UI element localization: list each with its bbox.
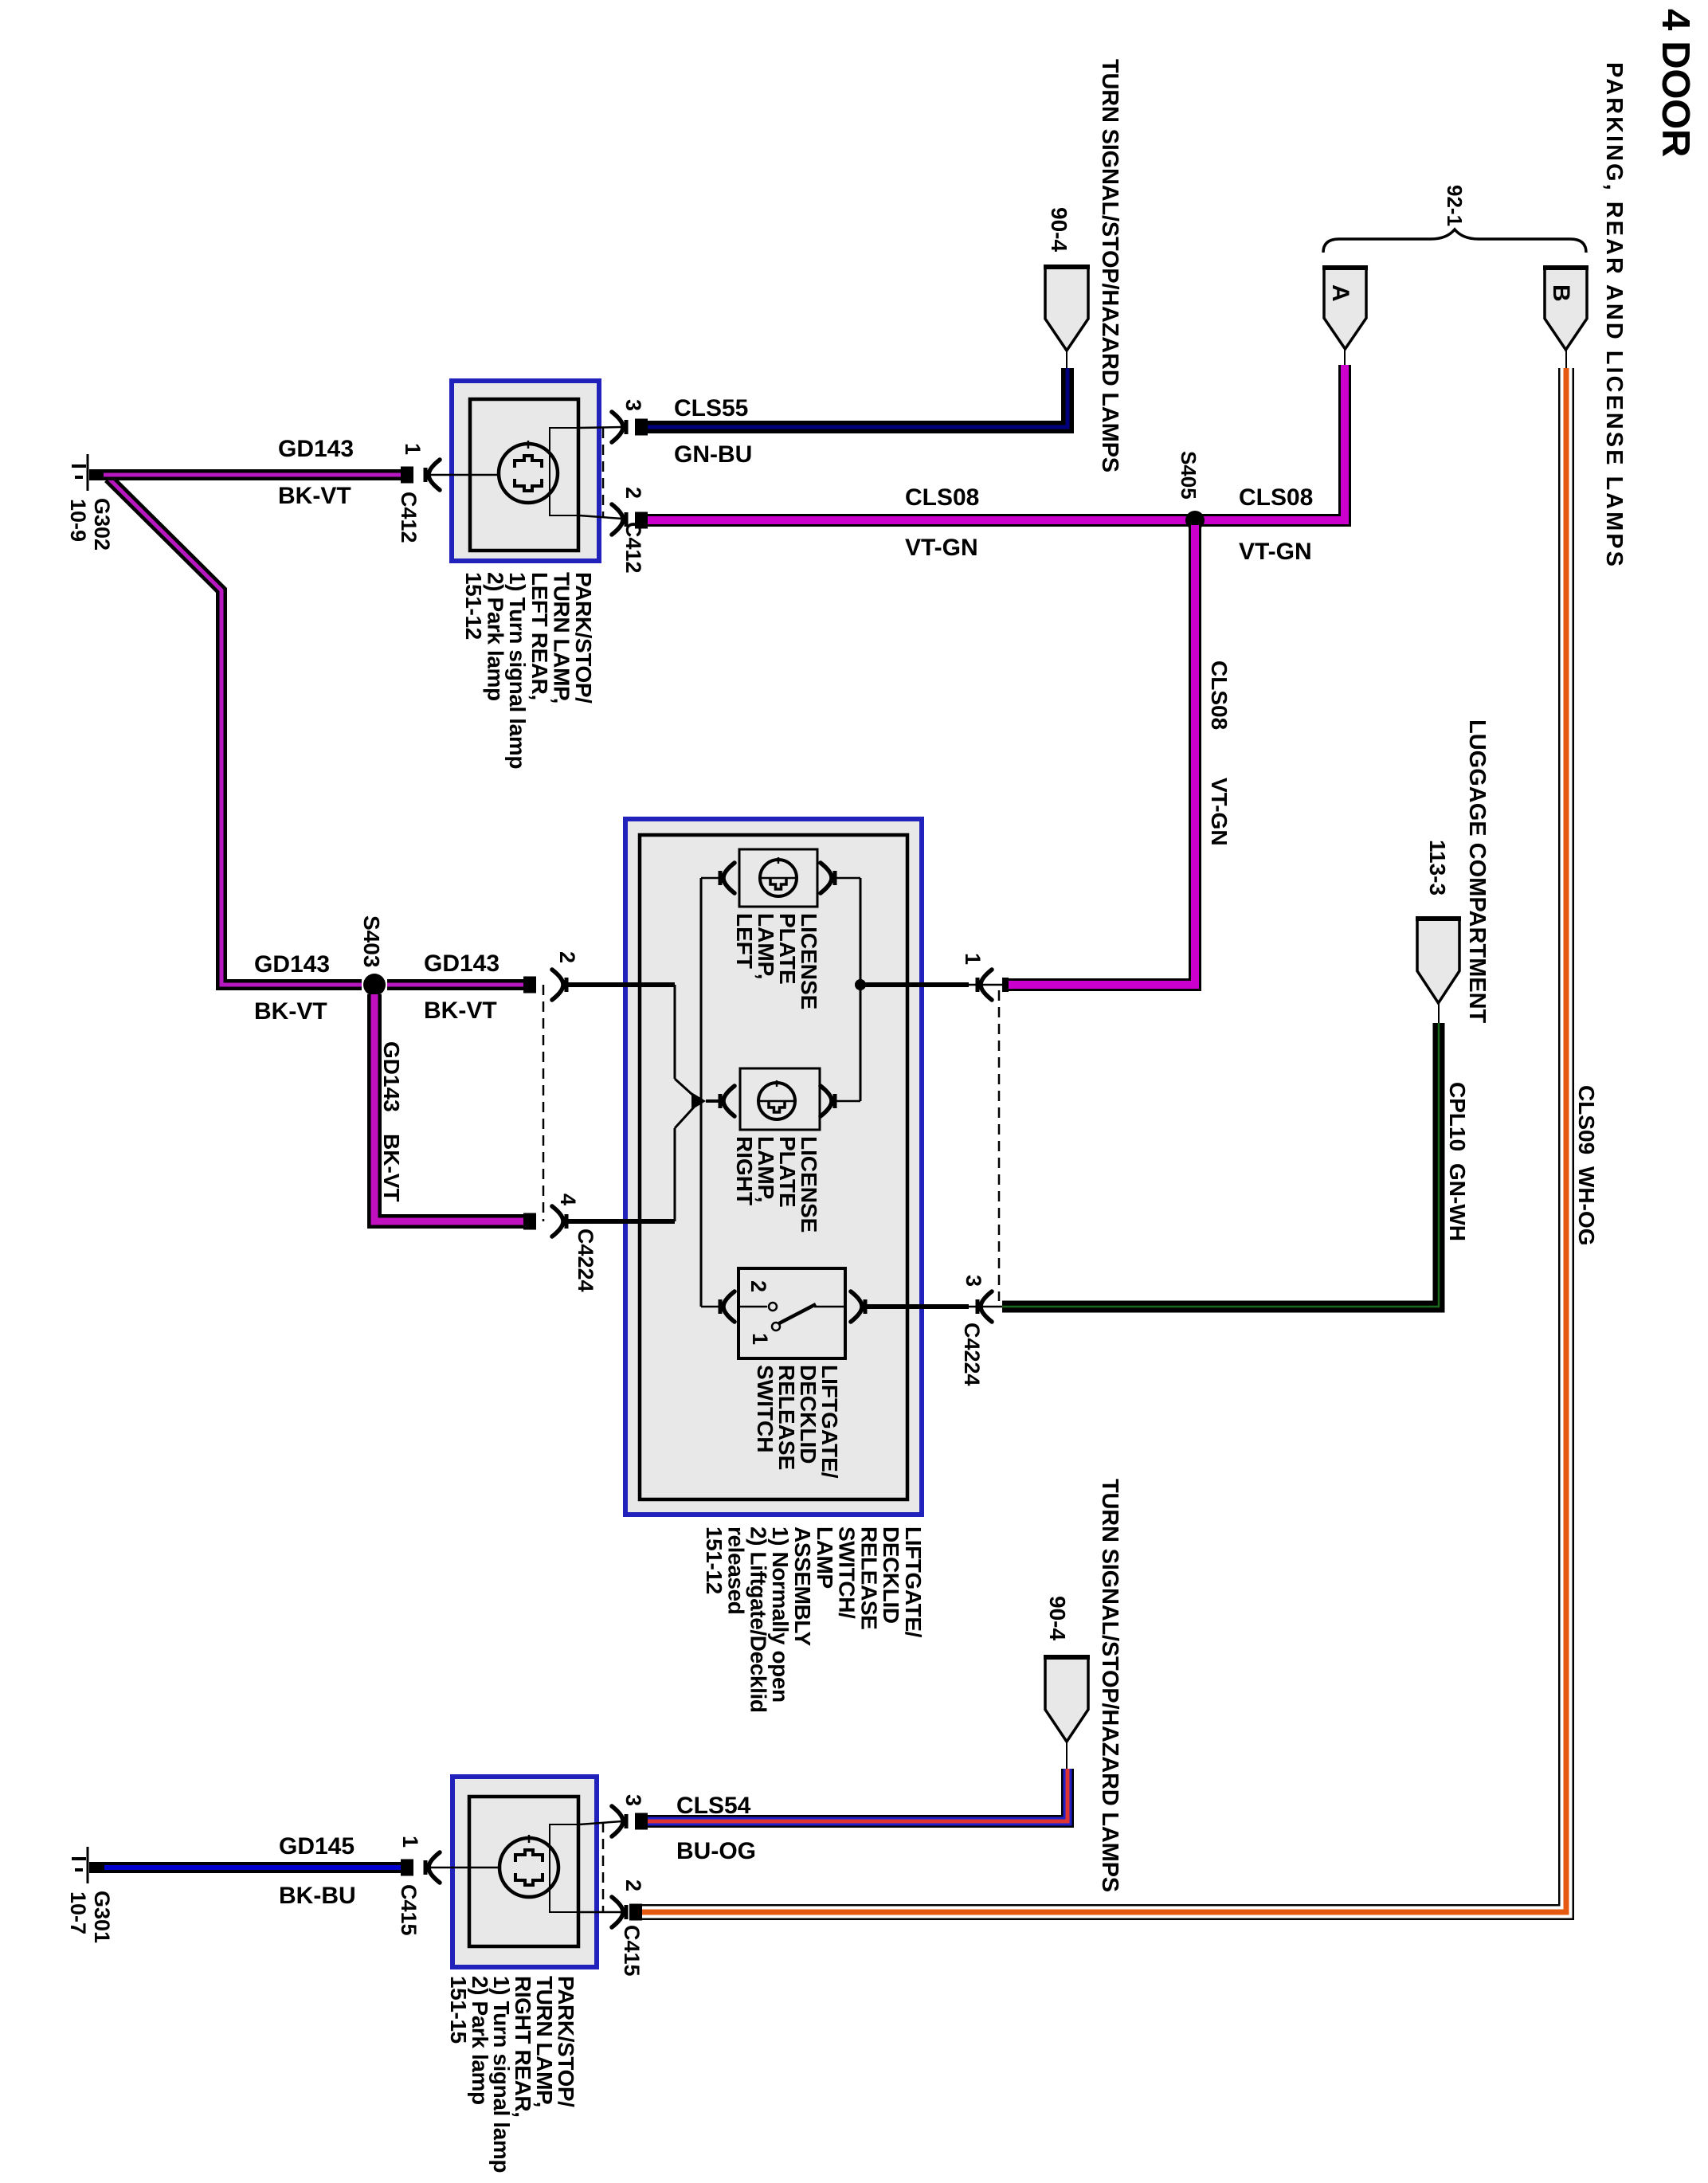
C412 internal lead pin 2 xyxy=(579,515,622,519)
svg-text:2: 2 xyxy=(621,487,645,499)
connector flag 90-4 top xyxy=(1045,267,1088,351)
wire end cap GD145 at C415 pin 1 xyxy=(401,1860,413,1876)
svg-text:CLS09: CLS09 xyxy=(1574,1085,1599,1154)
svg-text:1: 1 xyxy=(961,953,985,965)
C415 inner housing xyxy=(469,1797,578,1946)
svg-text:CLS08: CLS08 xyxy=(905,484,979,511)
svg-text:1) Normally open: 1) Normally open xyxy=(768,1527,793,1703)
switch contact 1 xyxy=(772,1323,780,1331)
wire end cap GD143 at C4224 pin 4 xyxy=(523,1213,536,1230)
connector flag 90-4 bottom xyxy=(1045,1657,1088,1742)
svg-text:G301: G301 xyxy=(90,1891,114,1943)
internal junction dot pin1 bus xyxy=(855,979,866,990)
svg-text:BK-VT: BK-VT xyxy=(424,997,497,1024)
internal pin 3 stub xyxy=(864,1304,969,1309)
wire end cap GD143 at C4224 pin 2 xyxy=(523,977,536,994)
svg-text:VT-GN: VT-GN xyxy=(905,535,978,561)
svg-text:2: 2 xyxy=(621,1879,645,1891)
switch left arrow xyxy=(723,1291,735,1322)
svg-text:113-3: 113-3 xyxy=(1425,840,1450,896)
connector flag A xyxy=(1324,268,1366,349)
brace for 92-1 xyxy=(1323,229,1586,253)
lead from flag A xyxy=(1344,349,1346,365)
svg-text:LAMP: LAMP xyxy=(813,1527,837,1589)
C412 pin 2 arrow xyxy=(612,504,623,535)
svg-text:DECKLID: DECKLID xyxy=(879,1527,903,1624)
svg-text:3: 3 xyxy=(621,399,645,411)
svg-text:S403: S403 xyxy=(359,915,384,967)
wire GD145 BK-BU xyxy=(89,1862,413,1873)
bulb license plate lamp right xyxy=(758,1083,795,1119)
lead left of left bulb xyxy=(701,877,722,880)
wire CLS08 VT-GN to C4224 pin 1 xyxy=(1002,525,1195,985)
connector C415 box xyxy=(452,1777,597,1967)
svg-text:BK-VT: BK-VT xyxy=(379,1134,404,1202)
wire end cap CLS54 at C415 pin 3 xyxy=(635,1813,648,1830)
svg-text:GD145: GD145 xyxy=(279,1833,355,1860)
svg-text:C4224: C4224 xyxy=(960,1323,984,1386)
wire GD143 S403 to C4224 pin 2 xyxy=(387,979,536,990)
ground G302 xyxy=(87,454,89,491)
internal pin 2 stub xyxy=(566,982,675,987)
C4224 left pin arrows xyxy=(552,970,563,1000)
C415 pin 1 arrow xyxy=(429,1852,440,1883)
switch contact 2 xyxy=(769,1303,777,1311)
connector flag 113-3 xyxy=(1417,919,1459,1003)
wire end cap GD143 at C412 pin 1 xyxy=(401,467,413,484)
svg-text:151-12: 151-12 xyxy=(461,572,486,640)
left bulb right arrow xyxy=(821,863,832,893)
svg-text:1: 1 xyxy=(398,1836,422,1848)
connector C412 box xyxy=(452,381,599,561)
svg-text:TURN SIGNAL/STOP/HAZARD LAMPS: TURN SIGNAL/STOP/HAZARD LAMPS xyxy=(1097,59,1122,472)
svg-text:CLS08: CLS08 xyxy=(1207,660,1232,730)
connector flag B xyxy=(1545,268,1587,350)
wire CLS54 BU-OG xyxy=(635,1769,1067,1821)
svg-text:3: 3 xyxy=(621,1794,645,1806)
C415 internal lead pin 2 xyxy=(579,1911,622,1914)
svg-text:BK-VT: BK-VT xyxy=(278,483,351,509)
svg-text:LUGGAGE COMPARTMENT: LUGGAGE COMPARTMENT xyxy=(1464,719,1490,1024)
svg-text:10-9: 10-9 xyxy=(66,499,90,542)
license plate lamp left sub-box xyxy=(739,849,817,907)
C412 socket outline xyxy=(550,428,579,515)
svg-text:PARK/STOP/: PARK/STOP/ xyxy=(571,572,596,703)
right bulb left arrow xyxy=(723,1086,735,1116)
svg-text:151-12: 151-12 xyxy=(702,1527,727,1594)
bulb park/stop/turn left rear xyxy=(499,444,558,503)
svg-text:2) Liftgate/Decklid: 2) Liftgate/Decklid xyxy=(746,1527,770,1713)
svg-text:CLS55: CLS55 xyxy=(674,395,748,421)
svg-text:151-15: 151-15 xyxy=(446,1976,471,2044)
wire GD143 S403 down to C4224 pin 4 xyxy=(374,994,536,1221)
C412 internal lead pin 1 xyxy=(430,474,499,476)
C412 pin 3 arrow xyxy=(612,412,623,442)
internal bus line left xyxy=(700,878,703,1307)
C412 dashed connector line xyxy=(602,428,605,518)
right bulb right arrow xyxy=(821,1086,832,1116)
svg-text:3: 3 xyxy=(962,1275,985,1287)
C415 internal lead pin 3 xyxy=(579,1821,622,1824)
wire CLS09 WH-OG xyxy=(629,368,1566,1912)
svg-text:WH-OG: WH-OG xyxy=(1574,1166,1599,1246)
wire end cap CLS55 at pin 3 xyxy=(635,419,648,436)
liftgate/decklid release switch/lamp assembly box xyxy=(625,819,922,1515)
svg-text:92-1: 92-1 xyxy=(1443,185,1467,226)
C415 pin 3 arrow xyxy=(612,1806,623,1836)
lead right of right bulb xyxy=(832,1100,860,1103)
svg-text:90-4: 90-4 xyxy=(1045,1596,1070,1640)
C412 pin 1 arrow xyxy=(429,460,440,490)
pins 2/4 merge lines xyxy=(674,985,676,1079)
svg-text:PARKING, REAR AND LICENSE LAMP: PARKING, REAR AND LICENSE LAMPS xyxy=(1601,62,1627,569)
wire CLS55 GN-BU xyxy=(635,368,1067,427)
C415 dashed connector line xyxy=(602,1822,605,1912)
svg-text:CPL10: CPL10 xyxy=(1445,1082,1470,1151)
wire end cap CLS08 at C4224 pin 1 xyxy=(1002,978,1009,992)
svg-text:1) Turn signal lamp: 1) Turn signal lamp xyxy=(505,572,530,769)
svg-text:2: 2 xyxy=(555,951,579,963)
svg-text:BK-VT: BK-VT xyxy=(254,998,327,1025)
svg-text:RIGHT: RIGHT xyxy=(732,1136,757,1205)
svg-text:C412: C412 xyxy=(397,492,421,543)
C412 inner housing xyxy=(470,399,578,551)
svg-text:BK-BU: BK-BU xyxy=(279,1883,356,1909)
license plate lamp right sub-box xyxy=(740,1068,820,1130)
wire GD143 BK-VT down run to S403 xyxy=(108,478,362,985)
wire CLS08 VT-GN from C412 pin 2 to flag A xyxy=(635,365,1345,520)
merge arrowhead xyxy=(691,1092,706,1110)
switch lead inside left xyxy=(738,1306,767,1308)
svg-text:CLS54: CLS54 xyxy=(676,1793,751,1819)
svg-text:GD143: GD143 xyxy=(278,436,354,462)
C4224 right dashed line xyxy=(998,990,1001,1301)
switch right arrow xyxy=(851,1291,862,1322)
svg-text:C412: C412 xyxy=(621,522,645,574)
svg-text:4: 4 xyxy=(556,1193,580,1205)
svg-text:GN-BU: GN-BU xyxy=(674,441,752,468)
lead from 90-4 bottom flag xyxy=(1066,1742,1067,1769)
assembly inner housing xyxy=(640,835,907,1499)
svg-text:LEFT REAR,: LEFT REAR, xyxy=(527,572,552,700)
svg-text:RELEASE: RELEASE xyxy=(856,1527,881,1629)
svg-text:TURN LAMP,: TURN LAMP, xyxy=(549,572,574,703)
svg-text:C4224: C4224 xyxy=(574,1229,597,1292)
svg-text:GD143: GD143 xyxy=(379,1041,404,1112)
svg-text:CLS08: CLS08 xyxy=(1239,484,1313,511)
C415 pin 2 arrow xyxy=(612,1897,623,1927)
splice S405 xyxy=(1185,511,1205,530)
svg-text:released: released xyxy=(724,1527,749,1614)
svg-text:GN-WH: GN-WH xyxy=(1445,1163,1470,1241)
svg-text:LEFT: LEFT xyxy=(732,913,757,969)
svg-text:C415: C415 xyxy=(397,1884,421,1936)
svg-text:BU-OG: BU-OG xyxy=(676,1838,756,1864)
switch feed lead xyxy=(701,1306,722,1308)
svg-text:1: 1 xyxy=(401,443,425,455)
svg-text:4 DOOR: 4 DOOR xyxy=(1654,9,1697,157)
C4224 right pin arrows xyxy=(981,970,992,1000)
svg-text:A: A xyxy=(1327,284,1353,302)
lead from 90-4 top flag xyxy=(1066,351,1067,368)
C415 socket outline xyxy=(550,1824,579,1912)
C415 internal lead pin 1 xyxy=(430,1867,499,1869)
internal pin 1 stub xyxy=(860,982,969,987)
svg-text:VT-GN: VT-GN xyxy=(1239,539,1312,565)
liftgate/decklid release switch box xyxy=(738,1268,845,1358)
bulb license plate lamp left xyxy=(760,860,797,896)
switch blade xyxy=(779,1304,816,1323)
left bulb left arrow xyxy=(723,863,735,893)
svg-text:GD143: GD143 xyxy=(254,951,330,978)
svg-text:SWITCH/: SWITCH/ xyxy=(835,1527,860,1619)
svg-text:B: B xyxy=(1548,284,1574,302)
wire CPL10 GN-WH xyxy=(1002,1023,1439,1307)
svg-text:S405: S405 xyxy=(1177,451,1201,500)
C412 internal lead pin 3 xyxy=(579,427,622,428)
C4224 left dashed line xyxy=(543,985,545,1221)
svg-text:1: 1 xyxy=(748,1333,772,1345)
lead left of right bulb xyxy=(706,1099,722,1103)
svg-text:2: 2 xyxy=(746,1280,770,1292)
switch lead inside right xyxy=(814,1306,845,1308)
svg-text:VT-GN: VT-GN xyxy=(1207,778,1232,846)
internal bus line right xyxy=(860,878,862,1101)
svg-text:ASSEMBLY: ASSEMBLY xyxy=(790,1527,815,1647)
lead from 113-3 flag xyxy=(1438,1003,1440,1023)
svg-text:10-7: 10-7 xyxy=(66,1891,90,1934)
svg-text:90-4: 90-4 xyxy=(1047,207,1071,252)
svg-text:C415: C415 xyxy=(620,1925,644,1977)
svg-text:2) Park lamp: 2) Park lamp xyxy=(484,572,508,701)
wire end cap CLS09 at C415 pin 2 xyxy=(629,1904,642,1921)
wire GD143 BK-VT ground run xyxy=(89,469,413,480)
bulb park/stop/turn right rear xyxy=(499,1838,558,1897)
svg-text:GD143: GD143 xyxy=(424,950,499,977)
svg-text:G302: G302 xyxy=(90,498,114,551)
svg-text:TURN SIGNAL/STOP/HAZARD LAMPS: TURN SIGNAL/STOP/HAZARD LAMPS xyxy=(1097,1479,1122,1892)
wire end cap CLS08 at pin 2 xyxy=(635,512,648,529)
internal pin 4 stub xyxy=(566,1219,675,1224)
ground G301 xyxy=(87,1847,89,1883)
svg-text:SWITCH: SWITCH xyxy=(753,1365,778,1452)
lead right of left bulb xyxy=(832,877,860,880)
svg-text:LIFTGATE/: LIFTGATE/ xyxy=(901,1527,926,1638)
lead from flag B xyxy=(1565,350,1567,368)
splice S403 xyxy=(363,974,386,996)
